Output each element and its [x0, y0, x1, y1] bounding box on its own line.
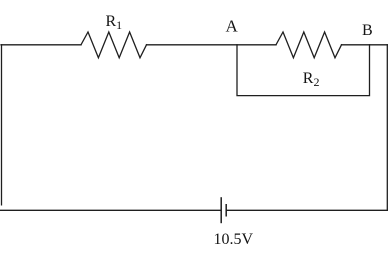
- wire top middle (R1 to R2): [147, 44, 277, 46]
- svg-text:B: B: [362, 22, 373, 39]
- resistor R2: [276, 32, 342, 58]
- wire bottom-right horizontal: [227, 209, 387, 211]
- wire parallel branch (node A down, across, up to node B): [237, 45, 370, 96]
- wire left vertical: [1, 45, 3, 205]
- svg-text:A: A: [226, 17, 239, 36]
- svg-text:R2: R2: [303, 70, 320, 89]
- battery V1 long plate: [220, 197, 222, 223]
- wire bottom-left horizontal: [0, 209, 220, 211]
- svg-text:R1: R1: [106, 13, 123, 32]
- wire top-right horizontal: [342, 44, 388, 46]
- resistor R1: [81, 32, 147, 58]
- svg-text:10.5V: 10.5V: [214, 231, 254, 248]
- battery V1 short plate: [225, 204, 227, 217]
- wire top-left horizontal: [1, 44, 81, 46]
- wire right vertical: [386, 45, 388, 211]
